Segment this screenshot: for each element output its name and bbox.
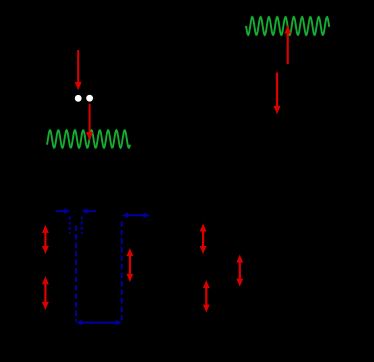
left wall mean position (dashed) [75,226,77,322]
blue arrow pointing left at wall gap [81,208,96,214]
emitted photon arrow into left wave (downward) [86,104,93,141]
right wall (dashed) [121,222,123,322]
left wall position 1 (dashed) [69,217,71,235]
electron right particle [86,95,93,102]
electron left particle [75,95,82,102]
left wall position 2 (dashed) [81,217,83,235]
mid oscillation arrow [126,248,133,282]
downward arrow below right wave [274,73,281,115]
cavity length double arrow (bottom) [76,320,122,326]
horizontal double arrow right of cavity top [122,212,150,218]
left oscillation arrow upper [42,225,49,254]
incident photon arrow (top-left, downward) [75,50,82,91]
upward arrow into right wave [284,25,291,64]
blue arrow pointing right at wall gap [56,208,70,214]
right group arrow upper [200,223,207,254]
photon wave left [47,130,130,148]
left oscillation arrow lower [42,276,49,310]
photon wave right [245,17,329,35]
right group arrow lower [203,280,210,313]
right group arrow outer [236,254,243,286]
